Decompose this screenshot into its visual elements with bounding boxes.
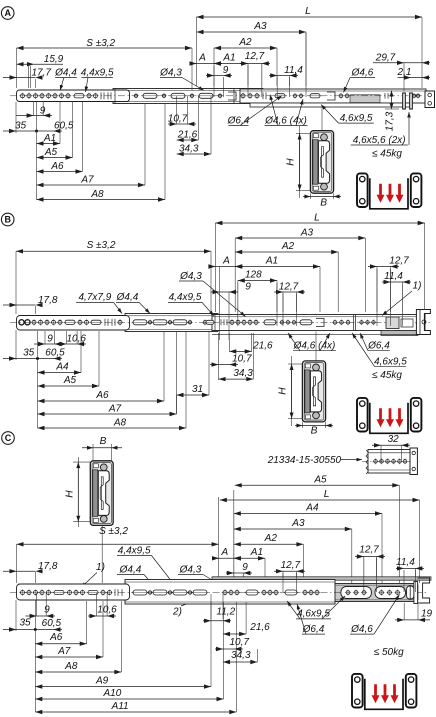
svg-text:10,7: 10,7 xyxy=(168,114,188,125)
svg-text:21334-15-30550: 21334-15-30550 xyxy=(267,455,342,466)
svg-text:1): 1) xyxy=(96,562,105,573)
svg-text:≤ 45kg: ≤ 45kg xyxy=(372,149,402,160)
svg-text:2): 2) xyxy=(172,607,182,618)
svg-text:15,9: 15,9 xyxy=(44,54,64,65)
svg-text:A3: A3 xyxy=(291,518,305,529)
svg-text:A2: A2 xyxy=(264,533,278,544)
svg-text:C: C xyxy=(5,433,12,443)
svg-text:4,4x9,5: 4,4x9,5 xyxy=(81,67,114,78)
svg-text:12,7: 12,7 xyxy=(245,51,265,62)
svg-text:17,3: 17,3 xyxy=(384,111,395,131)
svg-text:4,6x9,5: 4,6x9,5 xyxy=(297,609,330,620)
svg-text:21,6: 21,6 xyxy=(252,341,273,352)
svg-text:S ±3,2: S ±3,2 xyxy=(86,38,115,49)
svg-text:12,7: 12,7 xyxy=(359,545,379,556)
svg-text:11,2: 11,2 xyxy=(216,606,235,617)
svg-text:12,7: 12,7 xyxy=(281,560,301,571)
svg-text:12,7: 12,7 xyxy=(389,256,409,267)
svg-text:A: A xyxy=(220,547,228,558)
svg-text:A: A xyxy=(198,53,206,64)
svg-text:A10: A10 xyxy=(103,688,122,699)
svg-text:L: L xyxy=(314,213,320,224)
svg-text:Ø4,4: Ø4,4 xyxy=(116,292,139,303)
svg-text:B: B xyxy=(311,426,318,437)
svg-text:A7: A7 xyxy=(80,175,94,186)
svg-text:10,7: 10,7 xyxy=(229,637,249,648)
svg-text:A5: A5 xyxy=(313,474,327,485)
svg-text:11,4: 11,4 xyxy=(396,557,415,568)
svg-text:L: L xyxy=(324,489,330,500)
svg-text:A5: A5 xyxy=(44,147,58,158)
svg-text:A7: A7 xyxy=(108,404,122,415)
svg-text:9: 9 xyxy=(242,562,248,573)
svg-text:Ø6,4: Ø6,4 xyxy=(302,624,325,635)
svg-text:A8: A8 xyxy=(64,661,78,672)
svg-text:34,3: 34,3 xyxy=(233,368,253,379)
svg-text:4,6x5,6 (2x): 4,6x5,6 (2x) xyxy=(353,135,406,146)
svg-text:H: H xyxy=(286,158,297,166)
svg-text:Ø4,6: Ø4,6 xyxy=(350,624,373,635)
svg-text:L: L xyxy=(305,6,311,17)
svg-text:Ø4,6: Ø4,6 xyxy=(351,67,374,78)
svg-text:11,4: 11,4 xyxy=(384,271,403,282)
svg-text:60,5: 60,5 xyxy=(45,348,65,359)
svg-text:A4: A4 xyxy=(305,503,319,514)
svg-text:4,4x9,5: 4,4x9,5 xyxy=(118,545,151,556)
svg-text:9: 9 xyxy=(223,65,229,76)
svg-text:4,6x9,5: 4,6x9,5 xyxy=(374,357,407,368)
svg-text:B: B xyxy=(320,198,327,209)
svg-text:19: 19 xyxy=(421,609,433,620)
svg-text:A3: A3 xyxy=(253,21,267,32)
svg-text:2,1: 2,1 xyxy=(397,67,412,78)
svg-text:A4: A4 xyxy=(55,362,69,373)
svg-text:A2: A2 xyxy=(281,241,295,252)
svg-text:B: B xyxy=(4,215,11,225)
svg-text:9: 9 xyxy=(47,334,53,345)
svg-text:H: H xyxy=(64,490,75,498)
svg-text:9: 9 xyxy=(245,282,251,293)
svg-text:A9: A9 xyxy=(95,675,109,686)
svg-text:11,4: 11,4 xyxy=(284,65,303,76)
svg-text:35: 35 xyxy=(23,348,35,359)
svg-text:Ø4,3: Ø4,3 xyxy=(179,271,202,282)
svg-text:4,6x9,5: 4,6x9,5 xyxy=(340,113,373,124)
svg-text:A5: A5 xyxy=(63,375,77,386)
svg-text:Ø4,3: Ø4,3 xyxy=(159,67,182,78)
svg-text:9: 9 xyxy=(44,605,50,616)
svg-text:4,4x9,5: 4,4x9,5 xyxy=(169,292,202,303)
svg-text:21,6: 21,6 xyxy=(177,130,198,141)
svg-text:S ±3,2: S ±3,2 xyxy=(99,526,128,537)
svg-text:A1: A1 xyxy=(222,53,235,64)
svg-text:10,7: 10,7 xyxy=(232,354,252,365)
svg-text:A: A xyxy=(4,8,11,18)
svg-text:17,7: 17,7 xyxy=(32,67,52,78)
svg-text:A6: A6 xyxy=(95,390,109,401)
svg-text:32: 32 xyxy=(388,434,400,445)
svg-text:12,7: 12,7 xyxy=(279,282,299,293)
svg-text:A3: A3 xyxy=(300,228,314,239)
svg-text:34,3: 34,3 xyxy=(231,650,251,661)
svg-text:B: B xyxy=(100,436,107,447)
svg-text:60,5: 60,5 xyxy=(42,618,62,629)
svg-text:10,6: 10,6 xyxy=(97,605,117,616)
svg-text:A6: A6 xyxy=(50,161,64,172)
svg-text:A6: A6 xyxy=(49,632,63,643)
svg-text:10,6: 10,6 xyxy=(66,334,86,345)
svg-text:17,8: 17,8 xyxy=(38,561,58,572)
svg-text:1): 1) xyxy=(413,281,422,292)
svg-text:S ±3,2: S ±3,2 xyxy=(87,240,116,251)
svg-text:A8: A8 xyxy=(90,189,104,200)
svg-text:34,3: 34,3 xyxy=(179,144,199,155)
svg-text:H: H xyxy=(278,387,289,395)
svg-text:35: 35 xyxy=(15,121,27,132)
svg-text:Ø4,4: Ø4,4 xyxy=(119,564,142,575)
svg-text:A7: A7 xyxy=(57,646,71,657)
svg-text:A11: A11 xyxy=(111,701,129,712)
svg-text:A1: A1 xyxy=(43,133,56,144)
svg-text:Ø4,3: Ø4,3 xyxy=(179,564,202,575)
svg-text:A8: A8 xyxy=(113,418,127,429)
svg-text:Ø6,4: Ø6,4 xyxy=(367,341,390,352)
svg-text:128: 128 xyxy=(245,270,262,281)
svg-text:Ø4,4: Ø4,4 xyxy=(54,67,77,78)
svg-text:Ø4,6 (4x): Ø4,6 (4x) xyxy=(264,115,307,126)
svg-text:31: 31 xyxy=(192,384,203,395)
svg-text:60,5: 60,5 xyxy=(54,121,74,132)
svg-text:9: 9 xyxy=(40,106,46,117)
svg-text:≤ 45kg: ≤ 45kg xyxy=(372,370,402,381)
svg-text:A1: A1 xyxy=(265,256,278,267)
svg-text:4,7x7,9: 4,7x7,9 xyxy=(78,292,111,303)
svg-text:17,8: 17,8 xyxy=(38,295,58,306)
svg-text:A1: A1 xyxy=(250,547,263,558)
svg-text:35: 35 xyxy=(19,618,31,629)
svg-text:A: A xyxy=(222,256,230,267)
svg-text:≤ 50kg: ≤ 50kg xyxy=(374,647,404,658)
svg-text:A2: A2 xyxy=(238,37,252,48)
svg-text:29,7: 29,7 xyxy=(375,53,396,64)
svg-text:21,6: 21,6 xyxy=(249,622,270,633)
